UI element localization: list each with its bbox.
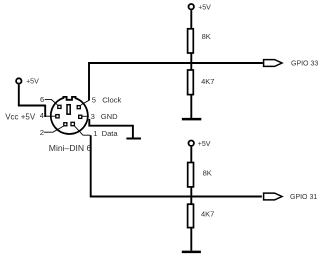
wire from +5V to resistor 8K (bottom) <box>190 147 192 163</box>
pin 1 leader line <box>74 126 90 135</box>
pin 4 contact <box>56 115 59 118</box>
svg-text:+5V: +5V <box>198 5 211 12</box>
+5V supply terminal (top right) <box>189 4 194 9</box>
svg-text:6: 6 <box>40 95 44 104</box>
svg-text:GPIO 31: GPIO 31 <box>290 194 317 201</box>
Mini-DIN 6 connector shell <box>51 97 88 134</box>
+5V supply terminal (bottom right) <box>189 141 194 146</box>
pin 3 leader line <box>82 115 89 117</box>
wire Clock net: up from pin 5 and right to GPIO 33 tag <box>89 63 263 101</box>
pin 5 leader line <box>81 100 89 105</box>
wire Vcc horizontal <box>18 105 45 107</box>
svg-text:Mini–DIN 6: Mini–DIN 6 <box>49 143 92 153</box>
wire from 4K7 to ground (top) <box>190 95 192 118</box>
wire Vcc vertical from +5V circle <box>18 85 20 106</box>
resistor 4K7 (bottom) <box>188 204 194 227</box>
resistor 8K (bottom) <box>188 163 194 187</box>
svg-text:Vcc +5V: Vcc +5V <box>5 112 36 121</box>
pin 4 leader line <box>45 115 56 117</box>
svg-text:3: 3 <box>91 112 95 121</box>
svg-text:+5V: +5V <box>26 78 39 85</box>
svg-text:GPIO 33: GPIO 33 <box>291 60 318 67</box>
pin 6 leader line <box>45 100 58 105</box>
svg-text:8K: 8K <box>202 32 211 41</box>
pin 2 contact <box>64 123 67 126</box>
svg-text:4K7: 4K7 <box>201 210 214 219</box>
GPIO 33 output tag <box>264 60 282 67</box>
svg-text:Data: Data <box>102 129 119 138</box>
ground symbol (GND pin) <box>126 138 141 140</box>
svg-text:5: 5 <box>92 95 96 104</box>
svg-text:4K7: 4K7 <box>201 77 214 86</box>
key slot <box>67 105 70 115</box>
svg-text:+5V: +5V <box>198 141 211 148</box>
GPIO 31 output tag <box>264 193 282 200</box>
wire from +5V to resistor 8K (top) <box>190 10 192 28</box>
pin 5 contact <box>77 106 80 109</box>
svg-text:1: 1 <box>93 129 97 138</box>
pin 6 contact <box>58 105 61 108</box>
svg-text:8K: 8K <box>203 169 212 178</box>
+5V supply terminal (left, Vcc) <box>16 78 21 83</box>
wire Data net: down from pin 1 and right to GPIO 31 tag <box>91 135 262 196</box>
svg-text:Clock: Clock <box>102 95 121 104</box>
resistor 4K7 (top) <box>188 70 194 95</box>
resistor 8K (top) <box>188 29 194 53</box>
wire from 4K7 to ground (bottom) <box>190 228 192 250</box>
wire Vcc vertical to pin 4 <box>44 105 46 117</box>
svg-text:4: 4 <box>40 111 44 120</box>
svg-text:GND: GND <box>101 112 118 121</box>
pin 1 contact <box>71 122 74 125</box>
svg-text:2: 2 <box>40 128 44 137</box>
pin 3 contact <box>79 115 82 118</box>
wire through Data junction <box>190 187 192 203</box>
pin 2 leader line <box>44 126 64 132</box>
ground symbol (top right) <box>182 118 201 121</box>
wire through Clock junction <box>190 54 192 70</box>
ground symbol (bottom right) <box>182 251 201 254</box>
wire GND net from pin 3 <box>89 119 133 138</box>
